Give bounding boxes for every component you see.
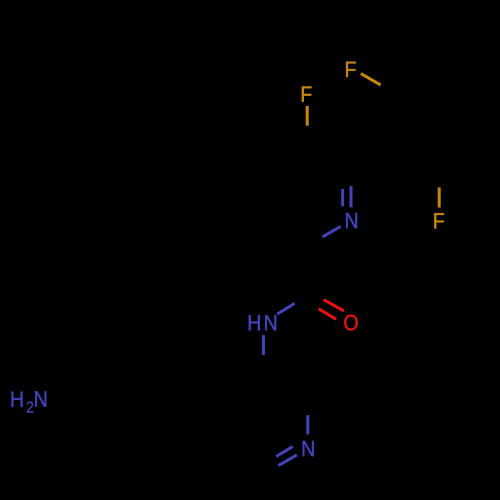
H2N amine label - N [35,391,46,406]
bond N2-Calpha (blue half) [306,415,309,434]
HN amide label - N [265,315,276,330]
bond N2=Cepsilon main line (blue half) [278,455,297,466]
bond C=O lower line (red) [319,309,337,320]
N2 pyridine nitrogen label [303,441,314,456]
N1 pyridine nitrogen label [346,213,357,228]
H2N amine label - H [12,392,23,407]
bond Nam-Cring (blue half) [262,335,265,355]
bond C=O upper line (red) [324,300,344,311]
F2 fluorine label [346,62,356,77]
bond F1-C5 (gold half) [306,106,309,126]
HN amide label - H [249,315,260,330]
bond Nam-Cco amide N to carbonyl C (blue half) [277,303,294,314]
bond N1=C6 main line (blue half) [350,186,353,207]
bond N1-C2 (blue half) [322,226,340,237]
O carbonyl oxygen label [344,315,357,331]
H2N amine label - 2 [27,401,33,412]
bond N2=Cepsilon inner line (blue half) [276,447,293,457]
F1 fluorine label [302,86,312,101]
bond N1=C6 inner line (blue half) [341,189,344,206]
F3 fluorine label [434,213,444,228]
bond F2-C2' (gold half) [361,74,381,85]
bond F3-C6' (gold half) [438,187,441,207]
